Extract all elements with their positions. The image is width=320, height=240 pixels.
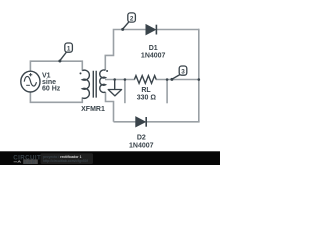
wire transformer secondary top to D1 anode: [105, 30, 146, 71]
svg-text:D1: D1: [149, 45, 158, 52]
svg-text:1N4007: 1N4007: [129, 142, 154, 149]
voltage source plus sign: [29, 73, 32, 76]
transformer core lines: [93, 71, 96, 98]
wire right rail vertical: [198, 29, 200, 122]
wire stub below node at x=124.9: [124, 80, 126, 104]
wire source bottom to transformer primary bottom: [30, 91, 82, 102]
svg-text:1N4007: 1N4007: [141, 53, 166, 60]
wire D1 cathode to right rail: [157, 29, 199, 31]
svg-text:60 Hz: 60 Hz: [42, 85, 61, 92]
voltage source minus sign: [26, 84, 30, 86]
svg-text:http://circuitlab.com/c9gv53f: http://circuitlab.com/c9gv53f: [43, 159, 89, 163]
transformer secondary phase dot: [106, 70, 108, 72]
resistor RL zigzag: [134, 76, 156, 84]
transformer XFMR1 secondary winding: [100, 70, 106, 92]
transformer XFMR1 primary winding: [82, 70, 89, 98]
svg-text:1: 1: [67, 45, 71, 52]
svg-text:330 Ω: 330 Ω: [137, 94, 157, 101]
node flag 3 pointer: [172, 74, 180, 79]
svg-text:LAB: LAB: [25, 159, 36, 164]
junction dot center tap ground node: [113, 78, 116, 81]
svg-text:3: 3: [181, 68, 185, 75]
svg-text:proyecto / rectificador 1: proyecto / rectificador 1: [43, 155, 82, 159]
wire D2 cathode to right rail: [146, 121, 199, 123]
svg-text:XFMR1: XFMR1: [81, 106, 105, 113]
node flag 1: [65, 43, 73, 52]
wire stub below node at x=167.1: [166, 80, 168, 104]
diode D2 cathode bar: [145, 117, 147, 127]
wire RL right to right rail: [156, 79, 199, 81]
node flag 3: [179, 66, 187, 75]
diode D1: [146, 25, 155, 35]
diode D2: [136, 117, 145, 127]
wire center tap to RL left: [105, 79, 135, 81]
junction dot stub A node: [124, 78, 127, 81]
node flag 1 pointer: [60, 52, 67, 61]
watermark text plate: [41, 153, 94, 164]
wire to D2 anode: [114, 121, 137, 123]
wire source top to transformer primary top: [30, 61, 82, 72]
svg-text:RL: RL: [141, 87, 151, 94]
junction dot output rail node: [198, 78, 201, 81]
wire transformer secondary bottom jog down: [106, 92, 114, 122]
svg-text:2: 2: [130, 15, 134, 22]
ground symbol on center tap: [114, 80, 116, 90]
junction dot stub B node: [166, 78, 169, 81]
voltage source V1 sine squiggle: [24, 76, 36, 86]
diode D1 cathode bar: [155, 25, 157, 35]
voltage source V1 circle: [21, 71, 40, 92]
watermark bar: [0, 151, 220, 165]
node flag 2 pointer: [123, 22, 130, 30]
transformer primary phase dot: [80, 72, 82, 74]
svg-text:D2: D2: [137, 134, 146, 141]
node flag 2: [128, 13, 136, 22]
